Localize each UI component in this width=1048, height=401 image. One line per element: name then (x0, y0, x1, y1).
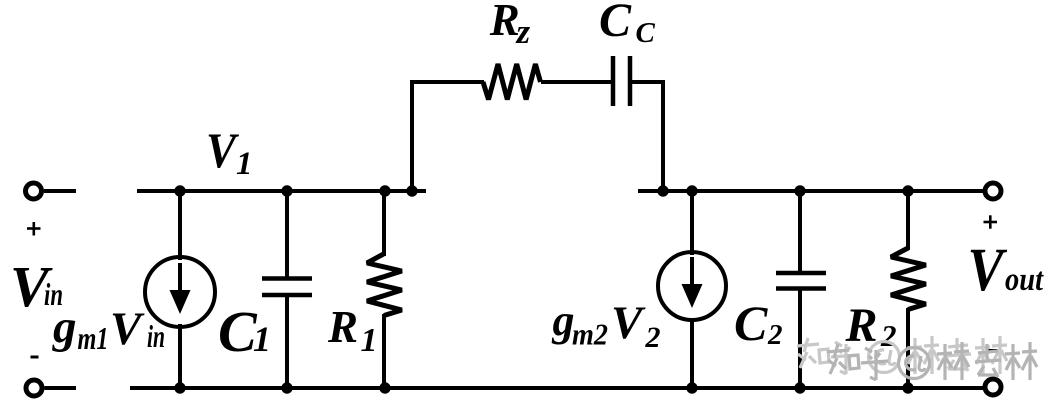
junction dot top-branch left corner (406, 185, 417, 196)
capacitor C2 bottom plate (776, 286, 826, 291)
svg-text:2: 2 (880, 318, 897, 353)
current source gm2V2 circle (658, 252, 726, 320)
wire vertical up to top branch at x=412 (410, 80, 414, 191)
wire gm1 top (178, 191, 182, 260)
svg-text:V: V (968, 237, 1008, 304)
svg-text:out: out (1005, 262, 1044, 298)
svg-text:1: 1 (253, 319, 271, 359)
watermark zhihu gray text copy B (827, 342, 1037, 380)
wire gm2 bottom (690, 318, 694, 388)
capacitor CC left plate (611, 56, 616, 106)
junction dot C1 bottom (281, 382, 292, 393)
resistor Rz (483, 64, 541, 100)
svg-text:C: C (218, 299, 258, 364)
node V1 junction dot gm1 top (174, 185, 185, 196)
svg-text:1: 1 (236, 146, 253, 182)
svg-text:R: R (489, 0, 520, 45)
junction dot R1 bottom (379, 382, 390, 393)
svg-text:g: g (52, 301, 77, 353)
wire top rail right stage (638, 189, 985, 193)
svg-text:C: C (599, 0, 632, 47)
svg-text:R: R (327, 302, 358, 352)
svg-text:V: V (110, 303, 145, 355)
capacitor C1 bottom plate (262, 293, 312, 298)
svg-text:1: 1 (361, 322, 378, 359)
wire bottom rail (130, 386, 983, 390)
junction dot R2 top (902, 185, 913, 196)
svg-text:in: in (147, 318, 165, 354)
wire R1 bottom (382, 314, 386, 388)
svg-text:V: V (206, 122, 239, 178)
wire lead from bottom-left terminal (45, 386, 77, 390)
current source gm1 arrow shaft (178, 263, 182, 295)
wire lead from top-left terminal (44, 189, 76, 193)
output terminal top-right (985, 183, 1001, 199)
svg-text:m1: m1 (78, 320, 109, 356)
svg-text:C: C (636, 17, 656, 49)
svg-text:V: V (611, 297, 646, 349)
wire R2 bottom (906, 308, 910, 388)
wire vertical down from top branch at x=663 (661, 80, 665, 191)
svg-text:z: z (516, 12, 531, 51)
input terminal top-left (26, 183, 42, 199)
wire C1 bottom (285, 297, 289, 388)
svg-text:C: C (734, 295, 768, 351)
wire C2 top (798, 191, 802, 272)
input terminal bottom-left (26, 380, 42, 396)
wire R1 top (382, 191, 386, 256)
capacitor C2 top plate (776, 271, 826, 276)
wire top branch horizontal to Rz (410, 80, 484, 84)
junction dot R2 bottom (902, 382, 913, 393)
current source gm2 arrowhead (682, 284, 703, 308)
junction dot gm2 bottom (686, 382, 697, 393)
wire Rz to Cc (541, 80, 611, 84)
watermark zhihu gray text copy A (797, 336, 1007, 374)
junction dot C1 top (281, 185, 292, 196)
output terminal bottom-right (985, 379, 1001, 395)
current source gm1Vin circle (145, 257, 215, 327)
resistor R2 (891, 248, 926, 310)
capacitor C1 top plate (262, 276, 312, 281)
resistor R1 (367, 254, 402, 316)
junction dot R1 top (379, 185, 390, 196)
svg-text:2: 2 (645, 321, 661, 354)
wire Cc to right corner (632, 80, 665, 84)
capacitor CC right plate (628, 56, 633, 106)
junction dot gm2 top (686, 185, 697, 196)
junction dot C2 top (794, 185, 805, 196)
wire top rail left stage (137, 189, 426, 193)
junction dot top-branch right corner (657, 185, 668, 196)
current source gm1 arrowhead (170, 290, 191, 314)
wire C1 top (285, 191, 289, 277)
minus sign output (987, 349, 998, 352)
svg-text:m2: m2 (572, 317, 608, 352)
plus sign output (984, 221, 998, 224)
wire gm2 top (690, 191, 694, 255)
wire gm1 bottom (178, 324, 182, 388)
wire R2 top (906, 191, 910, 250)
svg-text:R: R (845, 299, 878, 352)
svg-text:2: 2 (767, 319, 783, 351)
wire C2 bottom (798, 290, 802, 388)
junction dot C2 bottom (794, 382, 805, 393)
plus sign input (27, 227, 41, 230)
junction dot gm1 bottom (174, 382, 185, 393)
current source gm2 arrow shaft (690, 257, 694, 289)
minus sign input (31, 356, 39, 359)
